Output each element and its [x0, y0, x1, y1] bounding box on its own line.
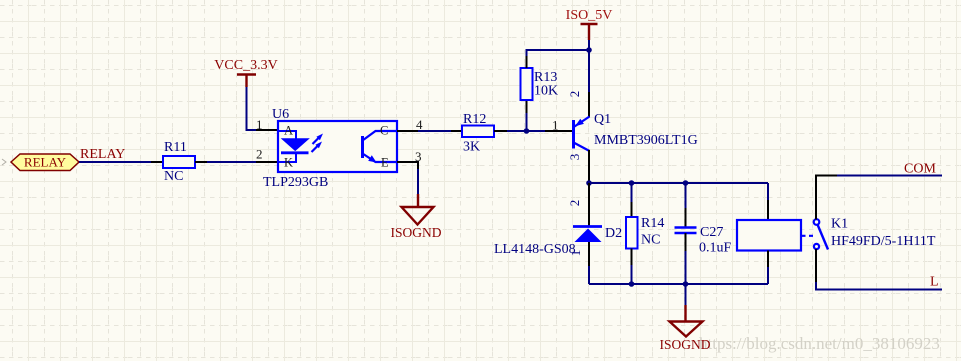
junction node R14/bottom bus [629, 281, 635, 287]
wire top bus to relay coil [767, 183, 769, 201]
pin Q1 collector [588, 150, 590, 183]
svg-text:MMBT3906LT1G: MMBT3906LT1G [594, 133, 698, 148]
wire R12 to Q1 base [507, 130, 546, 132]
svg-text:NC: NC [164, 169, 183, 184]
relay K1 actuator dashed link [801, 235, 813, 237]
relay K1 coil [737, 220, 801, 251]
resistor R14 pin stub bottom [631, 249, 633, 267]
wire bottom bus to ISOGND [685, 284, 687, 306]
svg-text:K: K [284, 156, 293, 170]
svg-text:ISOGND: ISOGND [659, 337, 710, 352]
wire top bus [589, 182, 768, 184]
svg-text:ISO_5V: ISO_5V [566, 8, 613, 23]
resistor R14 [626, 217, 638, 249]
svg-text:VCC_3.3V: VCC_3.3V [214, 58, 277, 73]
resistor R13 pin stub bottom [526, 100, 528, 113]
pin D2 cathode [588, 183, 590, 226]
svg-text:4: 4 [416, 117, 423, 132]
resistor R11 [163, 156, 195, 168]
wire R14 top [631, 183, 633, 203]
svg-text:TLP293GB: TLP293GB [263, 175, 328, 190]
U6 phototransistor collector [363, 131, 398, 141]
svg-text:https://blog.csdn.net/m0_38106: https://blog.csdn.net/m0_38106923 [699, 334, 940, 353]
resistor R1 pin 1 stub [151, 161, 163, 163]
pin D2 anode [588, 242, 590, 267]
diode D2 [573, 227, 602, 243]
resistor R12 pin stub left [451, 130, 462, 132]
capacitor C27 [675, 228, 697, 234]
pin C27 top [685, 208, 687, 227]
wire VCC to U6 pin 1 [247, 87, 258, 130]
pin K1 coil top [767, 200, 769, 220]
junction node C27/top bus [683, 180, 689, 186]
svg-text:U6: U6 [272, 107, 289, 122]
transistor Q1 [574, 117, 590, 152]
junction node C27/bottom bus [683, 281, 689, 287]
wire C27 bottom [685, 251, 687, 284]
resistor R13 pin stub top [526, 55, 528, 68]
wire C27 top [685, 183, 687, 209]
wire U6 pin3 down [417, 169, 419, 195]
power port VCC_3.3V [214, 58, 277, 87]
svg-text:0.1uF: 0.1uF [699, 241, 732, 256]
pin Q1 emitter [588, 92, 590, 117]
wire D2 to bottom bus [588, 266, 590, 284]
U6 LED triangle [282, 139, 309, 151]
wire R13 top to ISO_5V rail [527, 50, 590, 56]
svg-text:2: 2 [567, 200, 582, 207]
wire R14 bottom [631, 265, 633, 284]
svg-text:NC: NC [641, 233, 660, 248]
U6 phototransistor emitter with arrow [363, 154, 398, 163]
wire R13 bottom to base wire [526, 112, 528, 131]
svg-text:A: A [284, 124, 293, 138]
svg-text:LL4148-GS08: LL4148-GS08 [494, 242, 576, 257]
svg-text:3K: 3K [463, 140, 480, 155]
wire L [816, 282, 942, 290]
relay K1 switch blade [818, 225, 829, 250]
U6 LED anode lead [278, 131, 296, 139]
ground ISOGND (U6) [390, 194, 441, 240]
svg-text:R11: R11 [164, 140, 187, 155]
U6 light arrow upper [313, 134, 324, 145]
svg-text:COM: COM [904, 162, 936, 177]
wire R11 to U6 pin 2 [207, 161, 257, 163]
svg-text:C: C [380, 124, 388, 138]
ground ISOGND (bottom) [659, 305, 710, 352]
svg-text:D2: D2 [605, 226, 622, 241]
svg-text:E: E [381, 156, 389, 170]
U6 LED cathode lead [278, 153, 296, 162]
wire bottom bus [589, 283, 768, 285]
U6 light arrow lower [312, 142, 323, 153]
wire COM [837, 175, 942, 177]
junction node ISO_5V rail [586, 47, 592, 53]
resistor R13 [521, 68, 533, 100]
junction node R13/base [524, 128, 530, 134]
U6 phototransistor base bar [361, 136, 364, 158]
U6 LED cathode bar [281, 151, 309, 154]
resistor R12 [462, 126, 494, 138]
resistor R11 pin 2 stub [195, 161, 207, 163]
optocoupler U6 body [278, 121, 397, 172]
svg-text:R12: R12 [463, 112, 486, 127]
svg-text:K1: K1 [831, 217, 848, 232]
relay K1 contact circle top [814, 219, 820, 225]
pin U6.3 [397, 162, 418, 170]
wire ISO_5V down to Q1 emitter [588, 40, 590, 93]
svg-text:1: 1 [552, 118, 559, 133]
svg-text:2: 2 [567, 91, 582, 98]
pin U6.4 [397, 130, 419, 132]
relay K1 contact circle bottom [814, 244, 819, 249]
resistor R14 pin stub top [631, 202, 633, 217]
power port ISO_5V [566, 8, 613, 40]
svg-text:2: 2 [256, 147, 263, 162]
svg-text:HF49FD/5-1H11T: HF49FD/5-1H11T [831, 234, 936, 249]
pin U6.1 [256, 129, 278, 131]
pin Q1 base [545, 130, 572, 132]
svg-text:C27: C27 [700, 225, 723, 240]
wire RELAY port to R11 [79, 161, 152, 163]
wire relay coil to bottom bus [767, 267, 769, 284]
pin C27 bottom [685, 233, 687, 252]
svg-text:RELAY: RELAY [24, 155, 67, 170]
pin U6.2 [256, 161, 278, 163]
svg-text:L: L [930, 275, 939, 290]
pin K1 coil bottom [767, 251, 769, 269]
svg-text:ISOGND: ISOGND [390, 225, 441, 240]
pin K1 COM [816, 176, 838, 220]
resistor R12 pin stub right [494, 130, 507, 132]
svg-text:3: 3 [567, 154, 582, 161]
pin K1 NO [815, 249, 817, 283]
svg-text:RELAY: RELAY [80, 147, 125, 162]
svg-text:Q1: Q1 [594, 112, 611, 127]
wire U6 pin4 to R12 [418, 130, 452, 132]
svg-text:1: 1 [256, 117, 263, 132]
svg-text:3: 3 [415, 149, 422, 164]
svg-text:R14: R14 [641, 216, 664, 231]
junction node R14/top bus [629, 180, 635, 186]
port RELAY [2, 154, 79, 171]
svg-text:10K: 10K [534, 84, 558, 99]
junction node collector/top bus [586, 180, 592, 186]
